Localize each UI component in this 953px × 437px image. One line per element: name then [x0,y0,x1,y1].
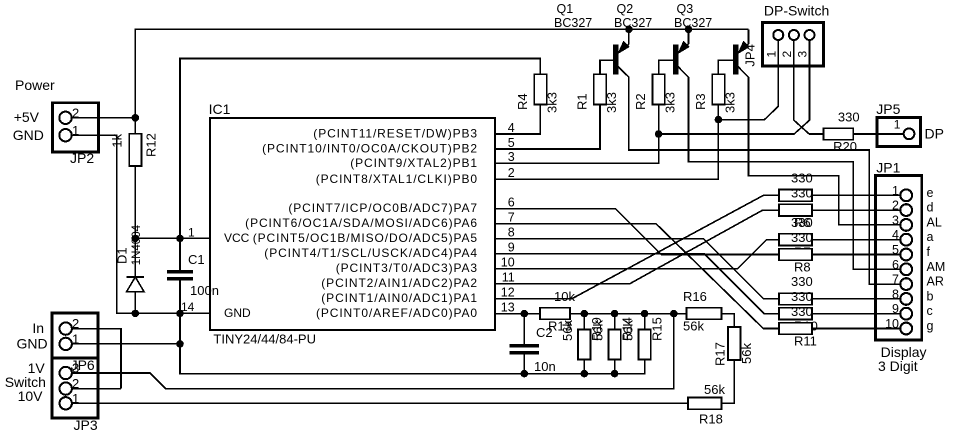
junction node +5V at JP2 [132,114,140,122]
svg-text:(PCINT7/ICP/OC0B/ADC7)PA7: (PCINT7/ICP/OC0B/ADC7)PA7 [288,201,478,215]
svg-text:GND: GND [17,336,48,352]
connector JP5 [877,117,920,146]
svg-text:6: 6 [508,196,515,210]
svg-text:11: 11 [502,271,515,285]
svg-text:56k: 56k [560,320,575,341]
resistor R20 330 [824,128,854,140]
wire Q3 collector to JP1 pin3 AL [749,77,901,225]
svg-text:3: 3 [892,213,899,227]
svg-text:4: 4 [508,121,515,135]
JP1 pin 3 (AL) [900,219,912,231]
svg-text:a: a [927,230,934,244]
svg-text:9: 9 [892,302,899,316]
svg-text:R18: R18 [699,412,723,427]
wire to JP1 [812,328,901,330]
resistor R10 330 [779,308,812,320]
svg-text:R3: R3 [693,93,708,110]
JP1 pin 6 (AM) [900,263,912,275]
svg-text:DP: DP [925,126,944,142]
wire R1 bottom to IC pin 5 [495,104,600,149]
resistor R15 56k [644,314,646,330]
svg-text:Q3: Q3 [677,2,694,16]
svg-text:56k: 56k [620,320,635,341]
svg-text:R4: R4 [515,93,530,110]
resistor R14 56k [614,314,616,330]
capacitor C1 100n [179,238,181,270]
resistor R3 3k3 [712,74,724,104]
wire GND stub below C1 [179,313,181,344]
svg-text:7: 7 [508,211,515,225]
svg-text:R15: R15 [649,317,664,341]
wire R4 bottom to IC pin 4 [495,104,540,134]
JP1 pin 1 (e) [900,189,912,201]
svg-text:1: 1 [188,226,195,240]
svg-text:c: c [927,304,933,318]
svg-text:5: 5 [508,136,515,150]
svg-text:JP1: JP1 [876,160,900,176]
svg-text:10: 10 [501,256,515,270]
svg-text:(PCINT2/AIN1/ADC2)PA2: (PCINT2/AIN1/ADC2)PA2 [321,276,478,290]
svg-text:VCC: VCC [224,231,250,245]
junction VCC-C1 [176,235,184,243]
wire ADC row right [570,313,686,315]
svg-text:10k: 10k [554,289,575,304]
svg-text:BC327: BC327 [554,16,592,30]
transistor Q3 BC327 [748,29,750,44]
svg-text:330: 330 [791,274,813,289]
wire Q2 collector to JP1 pin6 AM [689,77,901,269]
wire DP-Switch pin3 to R2 node [659,40,810,134]
wire +5V from JP2 pin2 to node [72,117,136,119]
wire GND rail to divider [180,344,645,374]
svg-text:330: 330 [791,230,813,245]
switch JP4 DP-Switch [763,22,824,65]
svg-text:5: 5 [892,243,899,257]
wire R3 bottom to IC pin 2 [495,104,718,179]
connector JP3 [52,358,98,418]
svg-text:2: 2 [892,199,899,213]
wire PA6 pin7 to R11 [495,224,779,329]
svg-text:56k: 56k [683,319,704,334]
svg-text:e: e [927,186,934,200]
svg-text:330: 330 [791,289,813,304]
svg-text:(PCINT11/RESET/DW)PB3: (PCINT11/RESET/DW)PB3 [313,127,478,141]
svg-text:+5V: +5V [14,109,40,125]
svg-text:(PCINT1/AIN0/ADC1)PA1: (PCINT1/AIN0/ADC1)PA1 [321,291,478,305]
JP1 pin 2 (d) [900,204,912,216]
JP1 pin 7 (AR) [900,278,912,290]
svg-text:(PCINT8/XTAL1/CLKI)PB0: (PCINT8/XTAL1/CLKI)PB0 [316,172,478,186]
resistor R5 330 [779,190,812,202]
wire to JP1 [812,254,901,256]
diode D1 1N4004 [134,238,136,277]
svg-text:8: 8 [892,287,899,301]
JP1 pin 8 (b) [900,293,912,305]
junction emitter Q2 on +5V rail [685,26,693,34]
svg-text:8: 8 [508,226,515,240]
JP1 pin 5 (f) [900,249,912,261]
svg-text:1: 1 [764,51,778,58]
junction divider tops [581,310,589,318]
svg-text:10n: 10n [534,359,556,374]
svg-text:TINY24/44/84-PU: TINY24/44/84-PU [213,332,316,347]
svg-text:R17: R17 [713,342,728,366]
svg-text:R1: R1 [575,93,590,110]
connector JP2 [53,103,99,153]
IC U1 IC1 TINY24/44/84-PU [210,118,495,330]
svg-text:f: f [927,245,931,259]
wire DP-Switch pin1 to R3 node [718,40,778,119]
svg-text:13: 13 [501,300,515,314]
svg-text:GND: GND [13,127,44,143]
svg-text:12: 12 [501,286,515,300]
svg-text:3k3: 3k3 [722,92,737,113]
svg-text:(PCINT4/T1/SCL/USCK/ADC4)PA4: (PCINT4/T1/SCL/USCK/ADC4)PA4 [264,246,478,260]
svg-text:JP5: JP5 [876,101,900,117]
junction GND at C1 column [176,340,184,348]
junction GND-D1 [132,310,140,318]
svg-text:b: b [927,289,934,303]
junction VCC-D1 [132,235,140,243]
junction C2 top [521,310,529,318]
wire +5V riser to top rail [135,29,748,118]
svg-text:3k3: 3k3 [544,92,559,113]
wire PA4 pin9 to R10 [495,254,779,314]
svg-text:JP3: JP3 [74,417,98,433]
svg-text:330: 330 [791,215,813,230]
resistor R2 3k3 [652,74,664,104]
svg-text:R2: R2 [633,93,648,110]
resistor R11 330 [779,323,812,335]
wire R2 bottom to IC pin 3 [495,104,659,163]
capacitor C2 10n [523,314,525,345]
junction divider bottoms [581,370,589,378]
svg-text:(PCINT3/T0/ADC3)PA3: (PCINT3/T0/ADC3)PA3 [336,261,478,275]
wire to JP1 [812,313,901,315]
svg-text:In: In [32,320,44,336]
resistor R6 330 [779,204,812,216]
resistor R8 330 [779,249,812,261]
svg-text:6: 6 [892,258,899,272]
wire PA7 pin6 to R8 [495,209,779,255]
connector JP1 [875,176,921,340]
wire GND JP6 pin1 [72,343,180,345]
junction GND-C1 [176,310,184,318]
wire to JP1 [812,194,901,196]
svg-text:9: 9 [508,241,515,255]
resistor R1 3k3 [594,74,606,104]
resistor R9 330 [779,293,812,305]
svg-text:(PCINT10/INT0/OC0A/CKOUT)PB2: (PCINT10/INT0/OC0A/CKOUT)PB2 [262,142,478,156]
wire R20 to JP5 [853,133,903,135]
svg-text:C1: C1 [188,252,205,267]
wire R16 to R17 [722,314,735,327]
wire PA3 pin10 to R7 [495,240,779,269]
connector JP6 [52,313,98,358]
svg-text:Power: Power [15,77,55,93]
wire GND from JP2 pin1 down to rail [72,135,210,313]
svg-text:R8: R8 [794,260,811,275]
svg-text:330: 330 [791,185,813,200]
svg-text:(PCINT5/OC1B/MISO/DO/ADC5)PA5: (PCINT5/OC1B/MISO/DO/ADC5)PA5 [253,231,478,245]
svg-text:R11: R11 [794,334,817,349]
wire R17 to R18 [722,360,735,403]
wire 10V net [72,402,688,404]
resistor R7 330 [779,234,812,246]
svg-text:BC327: BC327 [614,16,652,30]
resistor R13 10k [540,308,570,320]
svg-text:Q1: Q1 [557,2,574,16]
svg-text:g: g [927,319,934,333]
svg-text:10: 10 [885,317,899,331]
wire PA5 pin8 to R9 [495,239,779,299]
svg-text:IC1: IC1 [209,101,231,117]
junction emitter Q1 on +5V rail [625,26,633,34]
wire 1V net [72,314,674,389]
svg-text:GND: GND [224,306,251,320]
wire PA2 pin11 to R6 [495,210,779,284]
svg-text:3k3: 3k3 [604,92,619,113]
wire PA1 pin12 to R5 [495,195,779,298]
svg-text:d: d [927,201,934,215]
svg-text:(PCINT9/XTAL2)PB1: (PCINT9/XTAL2)PB1 [350,156,478,170]
svg-text:JP2: JP2 [70,150,94,166]
svg-text:BC327: BC327 [674,16,712,30]
wire VCC node row (pin 1) [135,237,210,239]
svg-text:R12: R12 [144,133,159,157]
junction C2 bottom [521,370,529,378]
wire VCC branch to R4 [180,59,540,239]
svg-text:1k: 1k [110,133,125,147]
svg-text:330: 330 [838,109,860,124]
svg-text:3: 3 [508,150,515,164]
wire to JP1 [812,298,901,300]
transistor Q2 BC327 [688,29,690,44]
svg-text:100n: 100n [190,283,219,298]
resistor R19 56k [583,314,585,330]
svg-text:D1: D1 [115,247,130,264]
junction DP pin3 / R2 [655,130,663,138]
svg-text:56k: 56k [590,320,605,341]
wire Switch [72,388,121,390]
svg-text:(PCINT0/AREF/ADC0)PA0: (PCINT0/AREF/ADC0)PA0 [316,306,478,320]
resistor R18 56k [688,398,722,410]
svg-text:Q2: Q2 [617,2,634,16]
resistor R16 56k [686,308,721,320]
resistor R12 1k [134,118,136,134]
JP1 pin 9 (c) [900,308,912,320]
svg-text:56k: 56k [739,343,754,364]
svg-text:2: 2 [780,51,794,58]
svg-text:2: 2 [508,166,515,180]
wire In to Switch [72,329,121,389]
svg-text:1N4004: 1N4004 [131,224,143,265]
svg-text:56k: 56k [704,382,725,397]
wire to JP1 [812,239,901,241]
svg-text:3k3: 3k3 [663,92,678,113]
svg-text:4: 4 [892,228,899,242]
svg-text:AR: AR [927,275,944,289]
svg-text:(PCINT6/OC1A/SDA/MOSI/ADC6)PA6: (PCINT6/OC1A/SDA/MOSI/ADC6)PA6 [245,216,478,230]
svg-text:1: 1 [892,184,899,198]
resistor R17 56k [728,327,740,360]
transistor Q1 BC327 [628,29,630,44]
svg-text:7: 7 [892,273,899,287]
junction 1V riser [670,310,678,318]
wire Q1 collector to JP1 pin7 AR [629,77,901,284]
svg-text:JP4: JP4 [743,44,758,66]
wire DP-Switch pin2 to R20 [794,40,824,134]
wire IC pin13 ADC row [495,313,540,315]
svg-text:3: 3 [796,51,810,58]
svg-text:1: 1 [894,118,901,132]
JP1 pin 4 (a) [900,234,912,246]
svg-text:14: 14 [181,300,195,314]
junction DP pin1 / R3 [715,116,723,124]
svg-text:C2: C2 [536,325,553,340]
svg-text:330: 330 [791,304,813,319]
svg-text:AM: AM [927,260,946,274]
JP1 pin 10 (g) [900,323,912,335]
wire to JP1 [812,209,901,211]
resistor R4 3k3 [534,74,546,104]
svg-text:AL: AL [927,215,942,229]
svg-text:3 Digit: 3 Digit [878,358,918,374]
svg-text:R20: R20 [833,139,857,154]
svg-text:330: 330 [791,171,813,186]
svg-text:DP-Switch: DP-Switch [764,3,829,19]
svg-text:R16: R16 [683,289,707,304]
svg-text:10V: 10V [18,388,44,404]
